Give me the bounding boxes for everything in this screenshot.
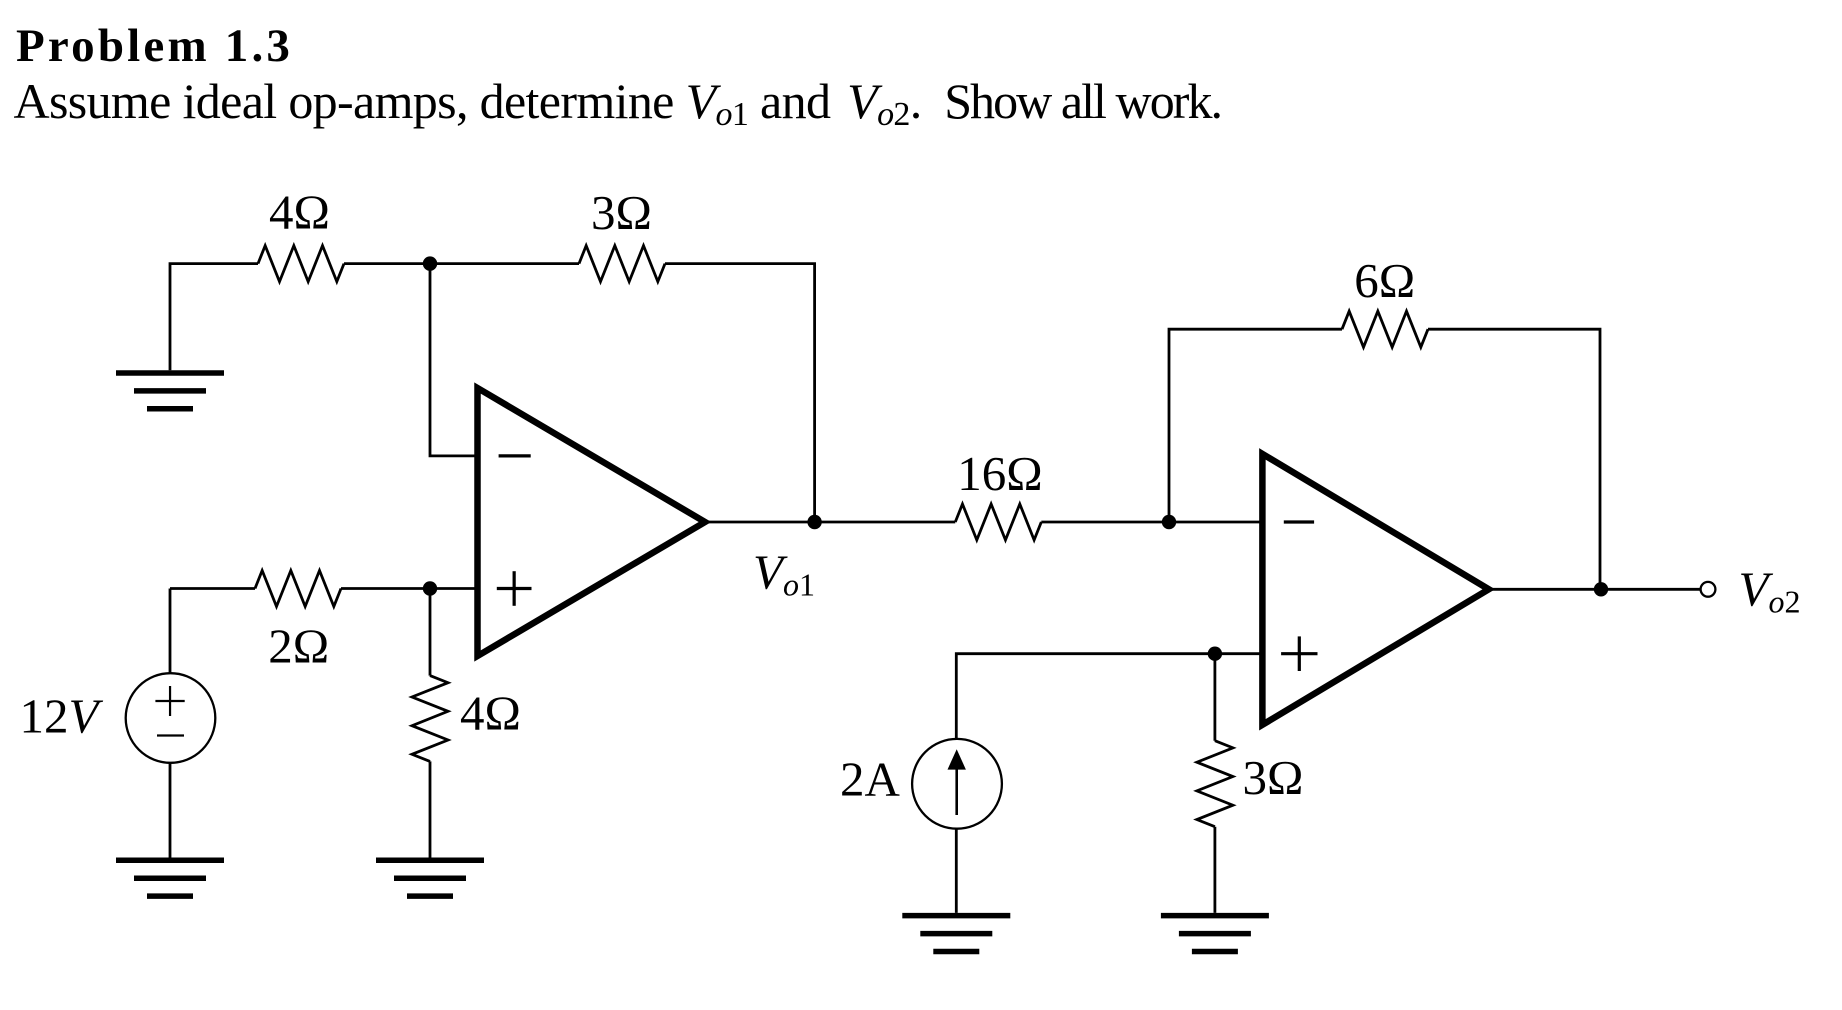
- svg-text:Assume ideal op-amps, determin: Assume ideal op-amps, determine Vo1 and …: [14, 73, 1222, 133]
- svg-text:3Ω: 3Ω: [591, 185, 652, 240]
- svg-text:2Ω: 2Ω: [268, 619, 329, 674]
- svg-text:16Ω: 16Ω: [957, 446, 1042, 501]
- svg-text:Vo1: Vo1: [753, 544, 815, 602]
- svg-text:4Ω: 4Ω: [269, 185, 330, 240]
- svg-text:6Ω: 6Ω: [1354, 253, 1415, 308]
- svg-text:4Ω: 4Ω: [460, 685, 521, 740]
- svg-text:3Ω: 3Ω: [1243, 750, 1304, 805]
- svg-text:Problem 1.3: Problem 1.3: [16, 20, 293, 72]
- svg-text:2A: 2A: [840, 752, 901, 807]
- svg-text:Vo2: Vo2: [1739, 561, 1801, 619]
- svg-text:12V: 12V: [19, 689, 103, 744]
